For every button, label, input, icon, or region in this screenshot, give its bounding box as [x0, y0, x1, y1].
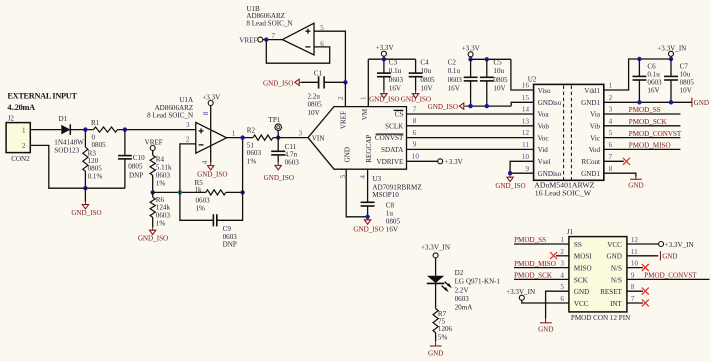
svg-text:4..20mA: 4..20mA: [7, 103, 35, 112]
wire U1A output: [227, 137, 253, 139]
svg-text:C1: C1: [314, 69, 323, 77]
svg-text:GND: GND: [662, 253, 677, 261]
svg-text:EXTERNAL INPUT: EXTERNAL INPUT: [7, 92, 77, 101]
svg-text:11: 11: [631, 248, 638, 256]
svg-text:Voc: Voc: [538, 134, 549, 142]
svg-text:10u: 10u: [493, 67, 504, 75]
svg-text:0805: 0805: [493, 76, 508, 84]
svg-text:10V: 10V: [420, 84, 433, 92]
ground GND_ISO under C8: [353, 217, 383, 234]
svg-text:8 Lead SOIC_N: 8 Lead SOIC_N: [246, 20, 292, 28]
svg-text:C10: C10: [133, 154, 145, 162]
net PMOD_SCK wire J1 pin4: [514, 272, 569, 280]
svg-text:Vob: Vob: [538, 123, 550, 131]
svg-text:2: 2: [22, 142, 26, 150]
svg-text:2: 2: [186, 135, 190, 143]
svg-text:9: 9: [413, 141, 417, 149]
svg-text:CONVST: CONVST: [375, 134, 404, 142]
svg-text:SCLK: SCLK: [385, 122, 404, 130]
node output: [240, 135, 244, 139]
node C8/GND: [365, 215, 369, 219]
svg-text:1k: 1k: [195, 186, 203, 194]
svg-text:J1: J1: [567, 228, 574, 236]
wire SCLK to U2: [407, 125, 534, 127]
svg-text:C5: C5: [493, 58, 502, 66]
svg-text:0805: 0805: [308, 101, 323, 109]
node R1/C10: [123, 127, 127, 131]
svg-text:REGCAP: REGCAP: [365, 135, 373, 163]
capacitor C10: [118, 130, 145, 189]
svg-text:0603: 0603: [196, 197, 211, 205]
svg-text:GND: GND: [628, 181, 643, 189]
node pin9/pin10: [508, 171, 512, 175]
svg-text:C3: C3: [389, 58, 398, 66]
power +3.3V above C2 C5: [462, 45, 511, 62]
svg-text:3: 3: [186, 121, 190, 129]
svg-text:GND_ISO: GND_ISO: [495, 182, 525, 190]
svg-text:GND_ISO: GND_ISO: [138, 234, 168, 242]
svg-text:PMOD_SS: PMOD_SS: [514, 236, 546, 244]
resistor R7: [433, 309, 453, 342]
wire U3 GND pin5: [346, 169, 367, 217]
svg-text:VIN: VIN: [312, 134, 325, 142]
svg-text:GND_ISO: GND_ISO: [353, 225, 383, 233]
no-connect J1 pin10: [627, 264, 649, 271]
svg-text:16V: 16V: [647, 86, 660, 94]
svg-text:INT: INT: [610, 300, 622, 308]
ground GND_ISO under C3: [369, 91, 399, 104]
svg-text:4: 4: [609, 117, 613, 125]
ground GND_ISO rail to U2 pin15: [428, 102, 534, 111]
power +3.3V_IN at J1 pin6: [506, 288, 569, 303]
ground GND_ISO input rail: [71, 188, 101, 217]
net PMOD_SS wire J1 pin1: [514, 236, 569, 244]
ground GND_ISO under C11: [264, 162, 294, 181]
ground GND under R7: [428, 341, 443, 358]
svg-text:3: 3: [299, 129, 303, 137]
capacitor C2: [448, 58, 478, 106]
svg-text:10: 10: [412, 153, 420, 161]
power +3.3V above C3 C4: [368, 44, 415, 61]
svg-text:PMOD_MISO: PMOD_MISO: [629, 142, 671, 150]
ground GND at U2 pin8: [604, 173, 644, 189]
capacitor C5: [480, 58, 508, 106]
power +3.3V_IN at J1 pin12: [627, 241, 694, 249]
svg-text:1%: 1%: [247, 157, 257, 165]
wire J2 pin2 down to iso rail: [30, 145, 125, 188]
svg-text:PMOD_MISO: PMOD_MISO: [514, 260, 556, 268]
capacitor C4: [409, 58, 435, 92]
svg-text:10u: 10u: [420, 67, 431, 75]
net PMOD_MISO wire J1 pin3: [514, 260, 569, 268]
LED D2: [427, 269, 501, 311]
svg-text:RCout: RCout: [581, 158, 600, 166]
svg-text:GND1: GND1: [581, 170, 600, 178]
svg-text:1: 1: [360, 96, 368, 100]
svg-text:PMOD_SCK: PMOD_SCK: [629, 118, 668, 126]
ground GND_ISO under C4: [401, 91, 431, 104]
node C1/VREF line: [343, 80, 347, 84]
svg-text:0805: 0805: [88, 165, 103, 173]
op-amp U1A: [147, 96, 236, 164]
svg-text:Via: Via: [590, 111, 601, 119]
wire SDATA to U2: [407, 148, 534, 150]
svg-text:C7: C7: [680, 62, 689, 70]
wire U1B pin5 to C1 node: [314, 31, 345, 82]
pin numbers U3 right: [412, 105, 420, 160]
connector J2: [6, 115, 30, 163]
svg-text:PMOD_SCK: PMOD_SCK: [514, 272, 553, 280]
svg-text:13: 13: [522, 117, 530, 125]
svg-text:1: 1: [22, 126, 26, 134]
power +3.3V_IN above C6 C7: [637, 44, 686, 61]
svg-text:15: 15: [522, 94, 530, 102]
svg-text:GND_ISO: GND_ISO: [369, 96, 399, 104]
svg-text:SDATA: SDATA: [381, 146, 404, 154]
svg-text:16V: 16V: [389, 84, 402, 92]
svg-text:GNDiso: GNDiso: [538, 99, 562, 107]
wire U2 pin10 Vsel: [510, 161, 533, 173]
svg-text:2: 2: [337, 96, 345, 100]
svg-text:9: 9: [631, 271, 635, 279]
svg-text:Vod: Vod: [589, 146, 601, 154]
svg-text:1%: 1%: [156, 219, 166, 227]
svg-text:2: 2: [560, 248, 564, 256]
svg-text:MSOP10: MSOP10: [372, 191, 399, 199]
svg-text:PMOD CON 12 PIN: PMOD CON 12 PIN: [571, 314, 630, 322]
svg-text:0603: 0603: [156, 212, 171, 220]
svg-text:0805: 0805: [420, 76, 435, 84]
op-amp U1B: [246, 5, 324, 55]
svg-text:0603: 0603: [448, 76, 463, 84]
svg-text:MISO: MISO: [574, 265, 592, 273]
svg-text:0805: 0805: [680, 78, 695, 86]
svg-text:16V: 16V: [386, 225, 399, 233]
svg-text:5%: 5%: [438, 333, 448, 341]
svg-text:7: 7: [272, 32, 276, 40]
isolator U2 body: [528, 75, 604, 197]
resistor R5: [195, 179, 226, 212]
node VREF output tap: [239, 37, 282, 45]
svg-text:4: 4: [359, 175, 367, 179]
node R5/C9: [240, 190, 244, 194]
svg-text:DNP: DNP: [223, 240, 237, 248]
svg-text:3: 3: [560, 260, 564, 268]
ground GND_ISO under U2 pin9: [495, 174, 525, 190]
svg-text:GND_ISO: GND_ISO: [263, 79, 293, 87]
svg-text:10u: 10u: [680, 70, 691, 78]
svg-text:+3.3V_IN: +3.3V_IN: [665, 241, 694, 249]
svg-text:SS: SS: [574, 241, 582, 249]
svg-text:C2: C2: [448, 58, 457, 66]
svg-text:R1: R1: [91, 119, 100, 127]
svg-text:12: 12: [631, 236, 639, 244]
capacitor C6: [633, 59, 663, 102]
svg-text:GND_ISO: GND_ISO: [71, 209, 101, 217]
svg-text:11: 11: [522, 141, 529, 149]
svg-text:1%: 1%: [156, 179, 166, 187]
power +3.3V_IN above D2: [421, 243, 450, 275]
wire +3.3V rail to U3 VM pin: [367, 59, 369, 106]
net PMOD_MISO wire U2 pin6: [604, 142, 681, 150]
no-connect J1 pin8: [627, 288, 649, 295]
svg-text:VCC: VCC: [574, 300, 589, 308]
capacitor C9: [180, 138, 243, 249]
svg-text:VM: VM: [361, 108, 369, 120]
resistor R1: [91, 119, 118, 149]
svg-text:Voa: Voa: [538, 111, 550, 119]
svg-text:0.1u: 0.1u: [448, 67, 461, 75]
svg-text:RESET: RESET: [600, 288, 622, 296]
node after D1: [83, 127, 87, 131]
svg-text:7: 7: [609, 153, 613, 161]
net PMOD_SCK wire U2 pin4: [604, 118, 681, 126]
svg-text:2.2V: 2.2V: [455, 286, 470, 294]
svg-text:4: 4: [201, 160, 209, 164]
wire R1 to U1A pin3: [118, 129, 196, 131]
svg-text:SCK: SCK: [574, 276, 589, 284]
wire J2 pin1 to D1: [30, 129, 61, 131]
svg-text:N/S: N/S: [611, 276, 622, 284]
ground GND_ISO under U1A: [197, 163, 227, 179]
wire CS to U2: [407, 113, 534, 115]
svg-text:GND: GND: [428, 350, 443, 358]
svg-text:LG Q971-KN-1: LG Q971-KN-1: [455, 278, 501, 286]
wire inverting input: [180, 144, 196, 193]
ground GND at J1 pin5: [538, 291, 569, 333]
svg-text:12: 12: [522, 129, 530, 137]
svg-text:1u: 1u: [386, 209, 394, 217]
test point TP1: [269, 116, 282, 138]
no-connect U2 pin7 RCout: [604, 158, 630, 165]
svg-text:R4: R4: [156, 156, 165, 164]
svg-text:U3: U3: [372, 175, 381, 183]
net PMOD_SS wire U2 pin3: [604, 106, 681, 114]
svg-text:6: 6: [560, 295, 564, 303]
svg-text:GND: GND: [607, 253, 622, 261]
node R3 bottom: [83, 186, 87, 190]
wire CONVST to U2: [407, 137, 534, 139]
svg-text:GND: GND: [538, 325, 553, 333]
svg-text:D2: D2: [455, 269, 464, 277]
capacitor C11: [271, 138, 299, 167]
svg-text:U2: U2: [528, 75, 537, 83]
svg-text:Vib: Vib: [590, 123, 601, 131]
svg-text:0603: 0603: [455, 295, 470, 303]
svg-text:0805: 0805: [92, 141, 107, 149]
wire C1 node down to U3 VREF pin: [344, 82, 346, 106]
svg-text:C4: C4: [420, 58, 429, 66]
svg-text:AD8606ARZ: AD8606ARZ: [246, 12, 285, 20]
svg-text:VREF: VREF: [239, 37, 257, 45]
svg-text:GND: GND: [574, 288, 589, 296]
svg-text:1%: 1%: [196, 204, 206, 212]
net PMOD_CONVST wire U2 pin5: [604, 130, 682, 138]
svg-text:Viso: Viso: [538, 87, 551, 95]
resistor R6: [150, 192, 170, 227]
pin numbers J1 left: [560, 236, 564, 303]
resistor R4: [150, 155, 172, 192]
wire feedback row: [153, 191, 206, 193]
ADC U3 body: [308, 96, 422, 199]
svg-text:R6: R6: [156, 196, 165, 204]
svg-text:0603: 0603: [156, 171, 171, 179]
pin numbers U2 left: [522, 82, 530, 173]
svg-text:0.1u: 0.1u: [389, 67, 402, 75]
svg-text:5: 5: [560, 283, 564, 291]
svg-text:7: 7: [413, 105, 417, 113]
svg-text:10: 10: [522, 153, 530, 161]
wire R5 to output branch: [226, 191, 243, 193]
capacitor C1: [301, 69, 345, 117]
svg-text:DNP: DNP: [129, 171, 143, 179]
power +3.3V above U1A: [202, 94, 221, 163]
wire LED to R7: [435, 283, 437, 308]
pin numbers J1 right: [631, 236, 639, 303]
svg-text:CON2: CON2: [11, 155, 30, 163]
svg-text:10V: 10V: [680, 86, 693, 94]
svg-text:2.2u: 2.2u: [308, 92, 321, 100]
svg-text:6: 6: [609, 141, 613, 149]
svg-text:PMOD_CONVST: PMOD_CONVST: [629, 130, 682, 138]
svg-text:N/S: N/S: [611, 265, 622, 273]
svg-text:16V: 16V: [448, 85, 461, 93]
svg-text:8: 8: [609, 165, 613, 173]
svg-text:Vid: Vid: [538, 146, 549, 154]
svg-text:C8: C8: [386, 201, 395, 209]
power +3.3V at VDRIVE: [407, 158, 464, 166]
svg-text:J2: J2: [8, 115, 15, 123]
svg-text:3: 3: [609, 105, 613, 113]
svg-text:D1: D1: [59, 115, 68, 123]
svg-text:4: 4: [560, 271, 564, 279]
wire D1 to R1: [70, 129, 93, 131]
svg-text:10: 10: [631, 260, 639, 268]
capacitor C7: [664, 59, 694, 102]
svg-text:0.1%: 0.1%: [88, 172, 103, 180]
svg-text:10V: 10V: [308, 109, 321, 117]
svg-text:16: 16: [522, 82, 530, 90]
wire U2 pin2 GND1: [604, 100, 692, 104]
svg-text:8: 8: [202, 111, 210, 115]
svg-text:1N4148W: 1N4148W: [54, 139, 84, 147]
svg-text:Vdd1: Vdd1: [584, 87, 600, 95]
svg-text:PMOD_SS: PMOD_SS: [629, 106, 661, 114]
svg-text:14: 14: [522, 105, 530, 113]
svg-text:8 Lead SOIC_N: 8 Lead SOIC_N: [147, 112, 193, 120]
svg-text:SOD123: SOD123: [54, 147, 79, 155]
svg-text:2: 2: [609, 94, 613, 102]
connector J1 body: [567, 228, 630, 322]
svg-text:5: 5: [609, 129, 613, 137]
svg-text:GND: GND: [343, 147, 351, 162]
svg-text:0603: 0603: [247, 149, 262, 157]
svg-text:5.11k: 5.11k: [156, 164, 172, 172]
svg-text:0805: 0805: [128, 163, 143, 171]
svg-text:10V: 10V: [493, 85, 506, 93]
svg-text:GNDiso: GNDiso: [538, 170, 562, 178]
diode D1: [54, 115, 84, 155]
svg-text:8: 8: [413, 117, 417, 125]
svg-text:C6: C6: [647, 62, 656, 70]
svg-text:GND: GND: [694, 99, 709, 107]
svg-text:0603: 0603: [647, 78, 662, 86]
svg-text:8: 8: [631, 283, 635, 291]
svg-text:GND_ISO: GND_ISO: [197, 170, 227, 178]
svg-text:6: 6: [413, 129, 417, 137]
resistor R2: [247, 126, 273, 165]
wire rail to U2 pin16: [511, 59, 534, 90]
svg-text:PMOD_CONVST: PMOD_CONVST: [644, 272, 697, 280]
svg-text:16 Lead SOIC_W: 16 Lead SOIC_W: [535, 188, 592, 197]
svg-text:GND_ISO: GND_ISO: [401, 96, 431, 104]
svg-text:20mA: 20mA: [455, 304, 474, 312]
net PMOD_CONVST wire J1 pin9: [627, 272, 710, 280]
svg-text:124k: 124k: [156, 204, 171, 212]
svg-text:GND_ISO: GND_ISO: [264, 174, 294, 182]
svg-text:0603: 0603: [389, 76, 404, 84]
node VREF tap: [145, 138, 163, 155]
svg-text:VDRIVE: VDRIVE: [377, 158, 404, 166]
ground GND right of pin2: [692, 98, 709, 108]
svg-text:AD7091RBRMZ: AD7091RBRMZ: [372, 183, 421, 191]
svg-text:Vic: Vic: [590, 134, 600, 142]
svg-text:R2: R2: [247, 126, 256, 134]
wire U2 pin1 Vdd1 to rail: [604, 59, 671, 90]
capacitor C8 on REGCAP pin4: [361, 169, 401, 233]
svg-text:AD8606ARZ: AD8606ARZ: [155, 104, 194, 112]
svg-text:0603: 0603: [285, 158, 300, 166]
node R4/R6: [151, 190, 155, 194]
svg-text:1: 1: [232, 130, 236, 138]
svg-text:TP1: TP1: [269, 116, 281, 124]
wire U1B pin6 feedback: [266, 40, 329, 64]
node inverting branch: [178, 190, 182, 194]
svg-text:9: 9: [525, 165, 529, 173]
svg-text:+3.3V_IN: +3.3V_IN: [421, 243, 450, 251]
wire R2 to VIN: [273, 137, 308, 139]
svg-text:GND1: GND1: [581, 99, 600, 107]
ground GND at J1 pin11: [627, 251, 678, 261]
svg-text:CS: CS: [395, 111, 404, 119]
ground GND_ISO under R6: [138, 227, 168, 242]
resistor R3: [83, 130, 103, 189]
node TP1 junction: [276, 135, 280, 139]
svg-text:+3.3V: +3.3V: [445, 158, 464, 166]
svg-text:7: 7: [631, 295, 635, 303]
no-connect J1 pin2 MOSI: [550, 252, 569, 259]
ground GND_ISO left of C1: [263, 79, 301, 87]
svg-text:MOSI: MOSI: [574, 253, 592, 261]
svg-text:0.1u: 0.1u: [647, 70, 660, 78]
svg-text:1: 1: [609, 82, 613, 90]
pin numbers U2 right: [609, 82, 613, 173]
svg-text:VCC: VCC: [607, 241, 622, 249]
svg-text:1: 1: [560, 236, 564, 244]
svg-text:GND_ISO: GND_ISO: [428, 103, 458, 111]
svg-text:Vsel: Vsel: [538, 158, 551, 166]
svg-text:1206: 1206: [438, 325, 453, 333]
wire U2 pin9 GNDiso: [510, 172, 533, 174]
capacitor C3: [377, 58, 403, 92]
svg-text:VREF: VREF: [340, 111, 348, 129]
no-connect J1 pin7: [627, 299, 649, 306]
